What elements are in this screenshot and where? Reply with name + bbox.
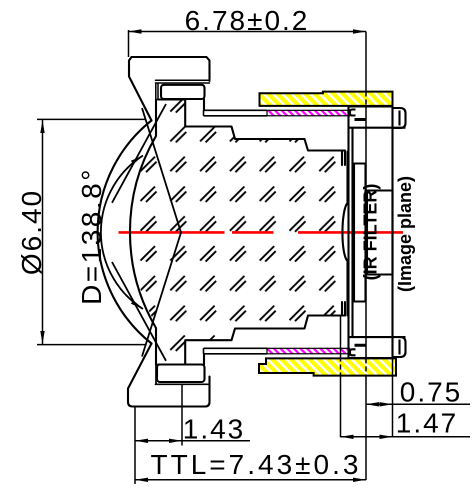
- svg-text:1.43: 1.43: [183, 413, 246, 444]
- svg-text:1.47: 1.47: [396, 408, 459, 439]
- svg-text:0.75: 0.75: [400, 376, 463, 407]
- svg-text:(Image plane): (Image plane): [395, 176, 415, 292]
- svg-text:Ø6.40: Ø6.40: [16, 189, 47, 275]
- svg-text:(IR FILTER): (IR FILTER): [361, 184, 381, 281]
- svg-text:D=138.8°: D=138.8°: [76, 167, 107, 305]
- svg-text:6.78±0.2: 6.78±0.2: [185, 5, 310, 36]
- svg-text:TTL=7.43±0.3: TTL=7.43±0.3: [151, 449, 362, 480]
